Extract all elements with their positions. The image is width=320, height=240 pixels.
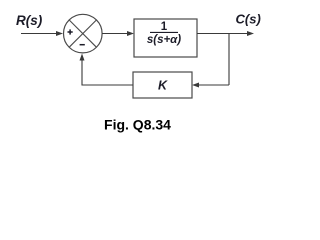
summing junction bbox=[64, 14, 103, 53]
wire summing junction to block bbox=[102, 31, 134, 36]
wire into block K bbox=[192, 83, 229, 88]
wire feedback takeoff down bbox=[228, 34, 230, 86]
wire feedback up into summing junction bbox=[80, 54, 85, 86]
wire output arrow bbox=[197, 31, 254, 36]
svg-text:s(s+α): s(s+α) bbox=[147, 34, 181, 46]
wire K to left bbox=[82, 84, 133, 86]
svg-text:1: 1 bbox=[161, 21, 168, 33]
minus sign bbox=[80, 44, 85, 46]
block U1: 1/s(s+alpha) bbox=[134, 19, 197, 57]
block K bbox=[133, 72, 192, 98]
plus sign bbox=[68, 29, 73, 34]
svg-text:K: K bbox=[158, 79, 168, 93]
wire input arrow bbox=[21, 31, 63, 36]
svg-text:C(s): C(s) bbox=[236, 12, 261, 27]
svg-text:R(s): R(s) bbox=[16, 13, 43, 28]
svg-text:Fig. Q8.34: Fig. Q8.34 bbox=[104, 117, 171, 133]
